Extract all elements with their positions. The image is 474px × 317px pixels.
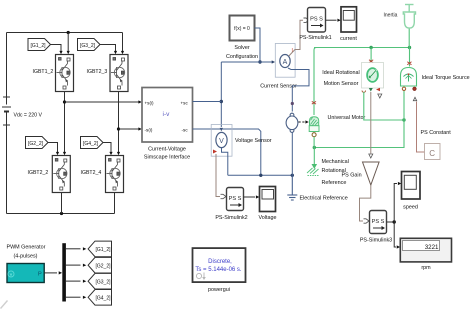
node right midpoint bbox=[117, 127, 120, 130]
node +sc junction bbox=[220, 100, 223, 103]
wire V PS output bbox=[216, 154, 220, 197]
wire motor C to junction bbox=[313, 137, 315, 148]
goto tag G1_2 bbox=[88, 241, 111, 257]
wire BR emitter bbox=[114, 193, 116, 214]
converter PS-Simulink3 bbox=[370, 211, 387, 234]
port torque C circle bbox=[402, 87, 405, 90]
transistor IGBT2_4 bbox=[106, 156, 124, 193]
wire A- electrical to motor bbox=[288, 68, 309, 112]
svg-text:[G4_2]: [G4_2] bbox=[83, 141, 99, 147]
wire +sc out bbox=[193, 101, 222, 103]
node left midpoint bbox=[63, 100, 66, 103]
svg-text:Mechanical: Mechanical bbox=[322, 159, 349, 165]
ground Mechanical Rotational Reference bbox=[307, 164, 320, 176]
wire G4 gate bbox=[103, 143, 111, 154]
wire to -s(i) bbox=[119, 128, 139, 130]
block PS Constant C bbox=[425, 144, 441, 160]
motor symbol bbox=[286, 113, 298, 132]
svg-text:PS Constant: PS Constant bbox=[421, 130, 452, 136]
block Ideal Torque Source bbox=[401, 68, 417, 87]
wire to speed scope bbox=[394, 184, 397, 223]
block Universal Motor bbox=[309, 117, 319, 132]
port hatch motor R bbox=[312, 101, 316, 104]
wire left rail lower bbox=[6, 113, 8, 214]
port sensor unused arrow bbox=[378, 94, 382, 98]
demux bar bbox=[62, 243, 66, 301]
port motor C circle bbox=[312, 133, 316, 137]
converter PS-Simulink2 bbox=[227, 188, 244, 211]
svg-text:C: C bbox=[429, 149, 435, 158]
svg-text:+sc: +sc bbox=[181, 100, 189, 105]
svg-text:Current-Voltage: Current-Voltage bbox=[148, 147, 186, 153]
svg-text:rpm: rpm bbox=[421, 265, 431, 271]
svg-text:-sc: -sc bbox=[182, 127, 189, 132]
wire to rpm display bbox=[394, 222, 396, 247]
svg-text:Motion Sensor: Motion Sensor bbox=[324, 81, 359, 87]
wire electrical top run bbox=[221, 61, 273, 63]
wire TL collector drop bbox=[67, 33, 69, 53]
wire motor R up to shaft bus bbox=[314, 48, 317, 116]
svg-text:IGBT2_4: IGBT2_4 bbox=[81, 170, 102, 176]
transistor IGBT1_2 bbox=[56, 55, 74, 92]
svg-text:Discrete,: Discrete, bbox=[208, 259, 232, 265]
port sensor W mark bbox=[369, 88, 373, 92]
from tag G1_2 bbox=[28, 39, 51, 51]
svg-text:PS S: PS S bbox=[229, 196, 242, 202]
svg-text:PWM Generator: PWM Generator bbox=[7, 245, 46, 251]
svg-text:f(x) = 0: f(x) = 0 bbox=[234, 26, 250, 32]
wire right leg midpoint bbox=[118, 92, 120, 154]
converter PS-Simulink1 bbox=[308, 8, 326, 33]
node motor plus mark bbox=[291, 102, 294, 105]
dc source Vdc battery symbol bbox=[2, 97, 11, 125]
svg-text:[G4_2]: [G4_2] bbox=[96, 296, 112, 302]
wire G1 gate bbox=[51, 45, 62, 53]
node solver junction bbox=[258, 60, 261, 63]
wire sensor C net bbox=[364, 92, 404, 120]
svg-text:powergui: powergui bbox=[208, 287, 230, 293]
svg-text:speed: speed bbox=[403, 205, 418, 211]
wire junction to mech reference bbox=[313, 148, 315, 167]
wire TR collector drop bbox=[122, 33, 124, 53]
svg-text:Vdc = 220 V: Vdc = 220 V bbox=[14, 113, 43, 119]
svg-text:(4-pulses): (4-pulses) bbox=[14, 254, 38, 260]
svg-text:A: A bbox=[283, 59, 288, 66]
svg-text:3221: 3221 bbox=[425, 244, 439, 251]
goto tag G2_2 bbox=[88, 257, 111, 273]
svg-text:[G3_2]: [G3_2] bbox=[80, 43, 96, 49]
svg-text:Configuration: Configuration bbox=[226, 54, 258, 60]
svg-text:Simscape Interface: Simscape Interface bbox=[144, 155, 190, 161]
svg-text:Electrical Reference: Electrical Reference bbox=[300, 196, 348, 202]
svg-text:Inertia: Inertia bbox=[384, 13, 398, 19]
block Solver Configuration f(x)=0 bbox=[230, 16, 255, 41]
wire shaft bus bbox=[314, 47, 410, 49]
svg-text:Voltage: Voltage bbox=[259, 215, 277, 221]
current sensor A bbox=[275, 44, 295, 78]
svg-text:[G2_2]: [G2_2] bbox=[96, 264, 112, 270]
ground Electrical Reference bbox=[287, 175, 297, 200]
goto tag G3_2 bbox=[88, 273, 111, 289]
port sensor C mark bbox=[362, 91, 366, 93]
from tag G3_2 bbox=[78, 39, 101, 51]
port torque S circle bbox=[413, 87, 416, 90]
wire PS-Simulink3 out bbox=[387, 221, 395, 223]
wire gain to PS-Simulink3 bbox=[360, 185, 371, 221]
wire G2 gate bbox=[48, 143, 58, 154]
wire solver to node bbox=[255, 28, 261, 62]
svg-text:[G1_2]: [G1_2] bbox=[31, 43, 47, 49]
svg-text:PS Gain: PS Gain bbox=[342, 173, 362, 179]
transistor IGBT2_3 bbox=[110, 55, 128, 92]
wire left rail upper bbox=[6, 33, 8, 105]
block powergui bbox=[193, 248, 246, 282]
port hatch torque R bbox=[407, 62, 411, 65]
wire demux out 3 bbox=[66, 280, 81, 282]
transistor IGBT2_2 bbox=[52, 156, 70, 193]
wire left leg midpoint bbox=[64, 92, 66, 154]
inertia block bbox=[403, 5, 415, 29]
wire C-net down-left to motor C bbox=[314, 120, 404, 148]
wire to +s(i) bbox=[65, 101, 139, 103]
port hatch sensor R bbox=[369, 60, 373, 63]
wire PWM to demux bbox=[44, 272, 57, 274]
dashed link to mechanical bbox=[299, 120, 309, 123]
svg-text:P: P bbox=[38, 272, 42, 278]
scope current bbox=[341, 7, 357, 32]
node C-net junction bbox=[402, 118, 405, 121]
node mech ref junction bbox=[313, 146, 316, 149]
svg-text:[G2_2]: [G2_2] bbox=[28, 141, 44, 147]
svg-text:Voltage Sensor: Voltage Sensor bbox=[235, 138, 272, 144]
svg-text:IGBT2_3: IGBT2_3 bbox=[87, 69, 108, 75]
wire demux out 2 bbox=[66, 264, 81, 266]
port arrow into gain bbox=[369, 154, 373, 158]
wire bottom electrical run bbox=[228, 174, 292, 176]
gain PS Gain triangle bbox=[363, 162, 380, 185]
svg-text:current: current bbox=[340, 36, 357, 42]
svg-text:PS S: PS S bbox=[372, 219, 385, 225]
wire I PS output bbox=[289, 20, 303, 56]
wire motor minus down bbox=[291, 132, 293, 175]
block Current-Voltage Simscape Interface bbox=[142, 88, 193, 143]
svg-text:IGBT2_2: IGBT2_2 bbox=[28, 170, 49, 176]
svg-text:Universal Motor: Universal Motor bbox=[328, 115, 366, 121]
port chevron PS-Simulink1 input bbox=[304, 18, 310, 22]
wire -sc out bbox=[193, 129, 261, 175]
voltage sensor V bbox=[211, 125, 232, 157]
svg-text:Ts = 5.144e-06 s.: Ts = 5.144e-06 s. bbox=[195, 267, 242, 273]
goto tag G4_2 bbox=[88, 290, 111, 306]
wire PS-Simulink2 to Voltage scope bbox=[244, 196, 256, 198]
svg-text:PS-Simulink1: PS-Simulink1 bbox=[299, 35, 331, 41]
svg-text:+s(i): +s(i) bbox=[145, 100, 155, 105]
svg-text:Solver: Solver bbox=[234, 45, 249, 51]
wire sensor R drop bbox=[370, 48, 372, 63]
svg-text:PS-Simulink2: PS-Simulink2 bbox=[215, 215, 247, 221]
wire +sc vertical bbox=[220, 62, 222, 127]
wire demux out 1 bbox=[66, 248, 81, 250]
port sensor A mark bbox=[376, 88, 380, 92]
svg-text:IGBT1_2: IGBT1_2 bbox=[33, 69, 54, 75]
svg-text:[G1_2]: [G1_2] bbox=[96, 247, 112, 253]
svg-text:PS S: PS S bbox=[310, 17, 323, 23]
block Ideal Rotational Motion Sensor bbox=[362, 63, 384, 89]
svg-text:-s(i): -s(i) bbox=[145, 127, 153, 132]
scope Voltage bbox=[260, 187, 276, 212]
node bottom junction left bbox=[259, 174, 262, 177]
display rpm bbox=[400, 238, 451, 262]
svg-text:V: V bbox=[219, 138, 224, 145]
port chevron PS-Simulink3 input bbox=[364, 219, 370, 223]
svg-text:Ideal Torque Source: Ideal Torque Source bbox=[422, 75, 470, 81]
wire top bus bbox=[7, 32, 123, 34]
svg-text:Ideal Rotational: Ideal Rotational bbox=[322, 70, 359, 76]
from tag G2_2 bbox=[26, 137, 49, 149]
wire torque source R drop bbox=[409, 48, 411, 67]
svg-text:PS-Simulink3: PS-Simulink3 bbox=[360, 238, 392, 244]
node top-bus junction bbox=[67, 31, 70, 34]
port chevron PS-Simulink2 input bbox=[221, 194, 227, 198]
block PWM Generator bbox=[7, 264, 44, 283]
node bottom-bus junction bbox=[60, 212, 63, 215]
node bottom junction right bbox=[291, 174, 294, 177]
wire PS-Simulink1 to current scope bbox=[326, 19, 337, 21]
wire sensor W to gain bbox=[370, 92, 372, 154]
wire inertia drop bbox=[408, 29, 410, 48]
svg-text:i-v: i-v bbox=[163, 111, 171, 118]
svg-text:[G3_2]: [G3_2] bbox=[96, 280, 112, 286]
wire bottom bus bbox=[7, 213, 115, 215]
svg-text:Reference: Reference bbox=[322, 180, 347, 186]
node shaft junction sensor bbox=[369, 46, 372, 49]
artifact bottom-left smudge bbox=[1, 301, 8, 309]
node shaft junction inertia bbox=[408, 46, 411, 49]
wire torque C drop bbox=[403, 91, 405, 121]
from tag G4_2 bbox=[81, 137, 104, 149]
wire demux out 4 bbox=[66, 296, 81, 298]
wire PS Constant to S bbox=[417, 102, 425, 153]
port arrow into S bbox=[413, 97, 416, 100]
svg-text:Current Sensor: Current Sensor bbox=[260, 84, 297, 90]
wire BL emitter bbox=[61, 193, 63, 214]
node speed/rpm junction bbox=[393, 220, 396, 223]
scope speed bbox=[402, 172, 421, 200]
wire V- electrical bbox=[222, 148, 228, 176]
wire G3 gate bbox=[100, 45, 116, 53]
